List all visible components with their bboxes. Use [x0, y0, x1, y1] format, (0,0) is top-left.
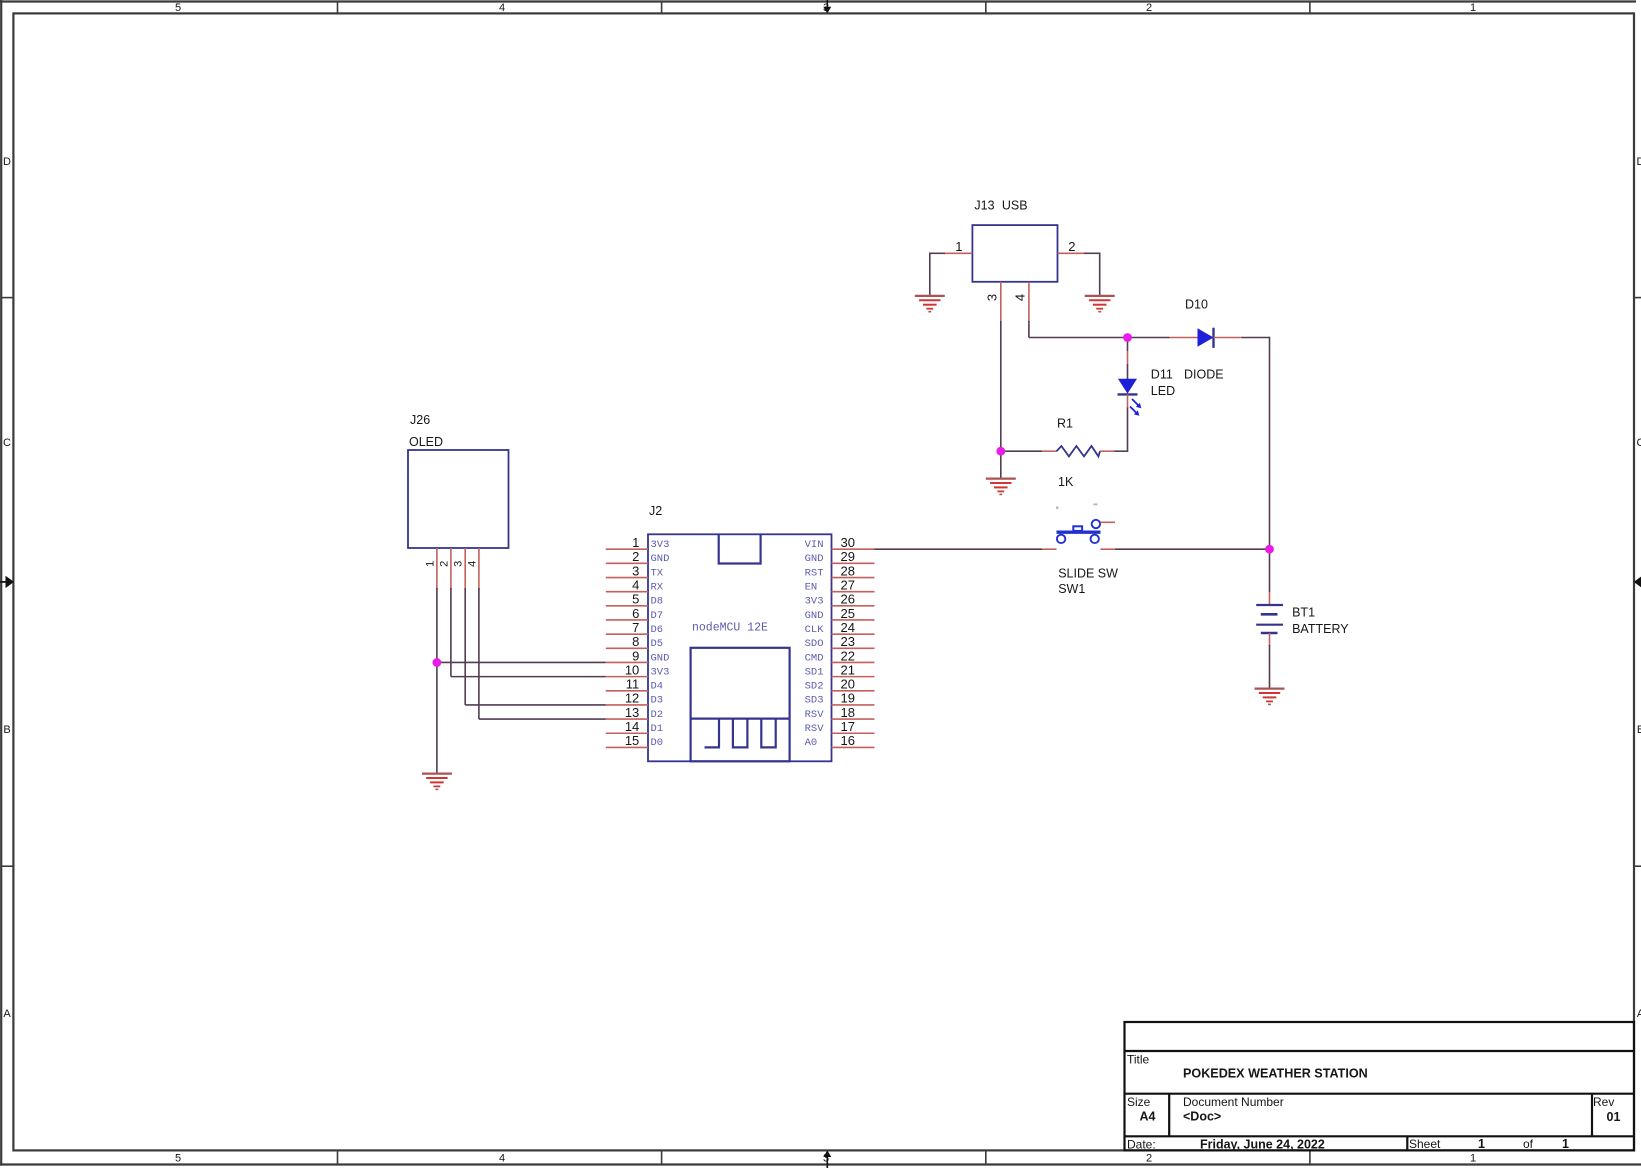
svg-text:Sheet: Sheet	[1409, 1137, 1441, 1151]
svg-text:2: 2	[1068, 239, 1075, 254]
svg-text:13: 13	[625, 705, 639, 720]
svg-text:27: 27	[841, 578, 855, 593]
svg-text:3V3: 3V3	[805, 596, 824, 608]
svg-text:D0: D0	[651, 737, 664, 749]
svg-text:RSV: RSV	[805, 709, 825, 721]
svg-text:POKEDEX WEATHER STATION: POKEDEX WEATHER STATION	[1183, 1067, 1368, 1081]
svg-text:1: 1	[1470, 2, 1476, 14]
svg-text:2: 2	[1146, 2, 1152, 14]
svg-text:19: 19	[841, 691, 855, 706]
svg-text:Rev: Rev	[1593, 1095, 1614, 1109]
svg-text:nodeMCU 12E: nodeMCU 12E	[692, 622, 768, 635]
svg-text:of: of	[1523, 1137, 1534, 1151]
svg-text:RX: RX	[651, 582, 664, 594]
svg-text:8: 8	[632, 634, 639, 649]
svg-text:1: 1	[955, 239, 962, 254]
svg-text:CLK: CLK	[805, 624, 825, 636]
svg-text:J26: J26	[410, 413, 430, 427]
svg-text:J2: J2	[649, 504, 662, 518]
svg-text:3V3: 3V3	[651, 539, 670, 551]
svg-text:EN: EN	[805, 582, 818, 594]
svg-text:D10: D10	[1185, 298, 1208, 312]
svg-text:D1: D1	[651, 723, 664, 735]
svg-text:3V3: 3V3	[651, 666, 670, 678]
svg-text:1K: 1K	[1058, 475, 1074, 489]
svg-text:R1: R1	[1057, 417, 1073, 431]
svg-text:SD1: SD1	[805, 666, 824, 678]
svg-text:D8: D8	[651, 596, 664, 608]
svg-text:D3: D3	[651, 695, 664, 707]
svg-text:4: 4	[466, 561, 478, 567]
svg-text:A: A	[3, 1008, 11, 1020]
svg-text:OLED: OLED	[409, 435, 443, 449]
svg-text:RST: RST	[805, 567, 824, 579]
svg-text:3: 3	[632, 563, 639, 578]
svg-text:4: 4	[499, 2, 505, 14]
svg-text:22: 22	[841, 648, 855, 663]
svg-text:Friday, June 24, 2022: Friday, June 24, 2022	[1200, 1138, 1325, 1152]
svg-text:SD3: SD3	[805, 695, 824, 707]
svg-text:D: D	[1637, 156, 1641, 168]
svg-text:1: 1	[1478, 1137, 1485, 1151]
svg-text:5: 5	[175, 1153, 181, 1165]
svg-text:DIODE: DIODE	[1184, 368, 1224, 382]
svg-text:Document Number: Document Number	[1183, 1095, 1284, 1109]
svg-text:5: 5	[632, 592, 639, 607]
svg-text:RSV: RSV	[805, 723, 825, 735]
svg-text:1: 1	[1470, 1153, 1476, 1165]
svg-text:11: 11	[626, 677, 640, 692]
svg-text:SW1: SW1	[1058, 582, 1085, 596]
svg-text:Size: Size	[1127, 1095, 1151, 1109]
svg-text:A4: A4	[1140, 1110, 1156, 1124]
svg-text:4: 4	[632, 578, 639, 593]
svg-text:GND: GND	[651, 553, 670, 565]
svg-text:Date:: Date:	[1127, 1138, 1156, 1152]
svg-text:VIN: VIN	[805, 539, 824, 551]
svg-text:18: 18	[841, 705, 855, 720]
svg-text:CMD: CMD	[805, 652, 824, 664]
svg-text:2: 2	[1146, 1153, 1152, 1165]
svg-text:24: 24	[841, 620, 855, 635]
svg-text:26: 26	[841, 592, 855, 607]
svg-text:4: 4	[499, 1153, 505, 1165]
svg-text:2: 2	[438, 561, 450, 567]
svg-text:J13: J13	[974, 199, 994, 213]
svg-text:3: 3	[453, 561, 465, 567]
svg-text:5: 5	[175, 2, 181, 14]
svg-text:D6: D6	[651, 624, 664, 636]
svg-text:BATTERY: BATTERY	[1292, 622, 1349, 636]
svg-text:15: 15	[625, 733, 639, 748]
svg-text:9: 9	[632, 648, 639, 663]
svg-text:GND: GND	[651, 652, 670, 664]
svg-text:<Doc>: <Doc>	[1183, 1110, 1221, 1124]
svg-text:D11: D11	[1151, 368, 1173, 382]
svg-text:Title: Title	[1127, 1053, 1150, 1067]
svg-text:D2: D2	[651, 709, 664, 721]
svg-text:17: 17	[841, 719, 855, 734]
svg-text:BT1: BT1	[1292, 606, 1315, 620]
svg-text:6: 6	[632, 606, 639, 621]
svg-text:21: 21	[841, 662, 855, 677]
svg-text:3: 3	[985, 294, 1000, 301]
svg-text:29: 29	[841, 549, 855, 564]
svg-text:23: 23	[841, 634, 855, 649]
svg-text:1: 1	[632, 535, 639, 550]
svg-text:01: 01	[1607, 1110, 1621, 1124]
svg-text:D: D	[3, 156, 11, 168]
svg-text:16: 16	[841, 733, 855, 748]
svg-text:10: 10	[625, 662, 639, 677]
svg-text:GND: GND	[805, 610, 824, 622]
svg-text:GND: GND	[805, 553, 824, 565]
svg-text:LED: LED	[1151, 384, 1175, 398]
svg-text:1: 1	[1562, 1137, 1569, 1151]
svg-text:SLIDE SW: SLIDE SW	[1058, 567, 1118, 581]
svg-text:TX: TX	[651, 567, 664, 579]
svg-text:B: B	[1637, 724, 1641, 736]
svg-text:14: 14	[625, 719, 639, 734]
svg-text:A: A	[1637, 1008, 1641, 1020]
svg-text:USB: USB	[1002, 199, 1028, 213]
svg-text:D5: D5	[651, 638, 664, 650]
svg-text:SDO: SDO	[805, 638, 824, 650]
svg-text:28: 28	[841, 563, 855, 578]
svg-text:4: 4	[1013, 294, 1028, 301]
svg-text:A0: A0	[805, 737, 818, 749]
svg-text:2: 2	[632, 549, 639, 564]
svg-text:7: 7	[632, 620, 639, 635]
svg-text:1: 1	[424, 561, 436, 567]
svg-text:B: B	[3, 724, 10, 736]
svg-text:20: 20	[841, 677, 855, 692]
svg-text:D7: D7	[651, 610, 664, 622]
svg-text:C: C	[3, 437, 11, 449]
svg-text:12: 12	[625, 691, 639, 706]
svg-text:30: 30	[841, 535, 855, 550]
svg-text:D4: D4	[651, 681, 664, 693]
svg-text:SD2: SD2	[805, 681, 824, 693]
svg-text:C: C	[1637, 437, 1641, 449]
svg-text:25: 25	[841, 606, 855, 621]
